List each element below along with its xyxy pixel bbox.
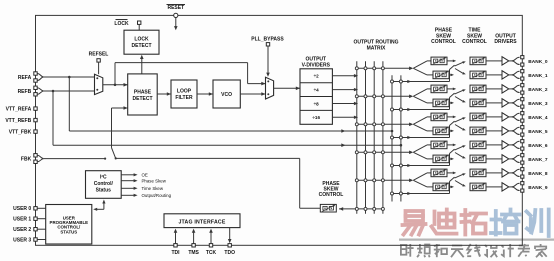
wire divider outputs to matrix [332,75,355,77]
wire time skew to driver [486,116,502,118]
matrix feedback tap line [339,208,383,210]
svg-text:TCK: TCK [206,250,217,256]
output driver buffer [502,57,509,65]
block phase skew bank 9 [433,183,449,191]
output driver buffer [502,85,509,93]
TDO pin [228,244,231,247]
svg-text:BANK_5: BANK_5 [528,129,548,135]
svg-text:BANK_2: BANK_2 [528,87,548,93]
svg-text:REFB: REFB [18,89,32,95]
wire time skew to driver [486,186,502,188]
wire loop filter to VCO [197,93,213,95]
wire phase skew feedback to phase detect [300,207,321,209]
VTT_FBK pin [34,130,37,133]
block phase skew bank 8 [431,169,447,177]
svg-text:REFSEL: REFSEL [89,51,109,57]
wire phase to time crossover pair 3 [447,144,453,146]
svg-text:VTT_FBK: VTT_FBK [9,130,32,136]
BANK_5 output pins [521,126,524,129]
block time skew bank 4 [470,113,486,121]
fork to bank 2 and 3 phase skew [413,89,427,96]
wire driver to pins [509,102,512,104]
svg-text:VTT_REFB: VTT_REFB [5,118,31,124]
svg-text:CONTROL: CONTROL [462,39,487,45]
output driver buffer [502,155,509,163]
wire PLL_BYPASS to mux [267,46,269,74]
wire driver to pins [509,60,512,62]
wire USER 3 to block [37,239,46,241]
block I2C control/status U7 [86,171,122,199]
block phase skew bank 2 [431,85,447,93]
wire TDI [175,231,177,244]
block phase skew bank 6 [431,141,447,149]
svg-text:OE: OE [142,172,148,177]
svg-text:VCO: VCO [221,92,232,98]
wire driver to pins [509,144,512,146]
wire time skew to driver [486,74,502,76]
svg-text:BANK_8: BANK_8 [528,171,548,177]
wire driver to pins [509,172,512,174]
PLL_BYPASS pin [266,43,269,46]
svg-text:MATRIX: MATRIX [367,46,386,52]
wire TDO [229,228,231,241]
svg-text:USER 0: USER 0 [13,206,31,212]
wire bypass mux to dividers [274,87,300,89]
matrix row lines to output pairs [357,67,410,69]
BANK_2 output pins [521,84,524,87]
node PLL bypass tap [114,84,117,87]
watermark small text 射频和天线设计专家 [401,244,414,257]
block time skew bank 0 [470,57,486,65]
svg-text:REFA: REFA [18,75,32,81]
wire TCK [210,231,212,244]
node REFB tap [52,90,55,93]
block phase skew bank 5 [433,127,449,135]
svg-text:CONTROL: CONTROL [319,192,344,198]
REFA input fork [37,74,44,81]
svg-text:DRIVERS: DRIVERS [494,39,517,45]
block phase skew bank 1 [433,71,449,79]
wire driver to pins [509,88,512,90]
wire time skew to driver [486,144,502,146]
block phase skew bank 7 [433,155,449,163]
BANK_1 output pins [521,70,524,73]
wire LOCK pin to lock detect [138,24,140,30]
block time skew bank 3 [470,99,486,107]
TCK pin [209,244,212,247]
matrix columns reference bypass [391,75,393,201]
svg-text:LOOP: LOOP [177,88,192,94]
svg-text:CONTROL: CONTROL [431,39,456,45]
svg-text:BANK_4: BANK_4 [528,115,548,121]
block output V-dividers [300,69,332,125]
block user programmable control/status U8 [46,205,92,245]
REFA input pins [34,72,37,75]
output driver buffer [502,71,509,79]
svg-text:BANK_9: BANK_9 [528,185,548,191]
fork to bank 4 and 5 phase skew [413,117,427,124]
svg-text:DETECT: DETECT [132,43,152,49]
block time skew bank 9 [470,183,486,191]
output driver buffer [502,141,509,149]
BANK_8 output pins [521,168,524,171]
wire time skew to driver [486,130,502,132]
svg-text:BANK_6: BANK_6 [528,143,548,149]
svg-text:Status: Status [96,188,112,194]
wire phase to time crossover pair 2 [447,116,453,118]
svg-text:USER 1: USER 1 [13,217,31,223]
wire user block to I2C [103,202,105,210]
block PHASE DETECT U3 [128,74,158,115]
svg-text:RESET: RESET [167,5,184,11]
wire secondary riser [449,154,451,166]
svg-text:BANK_0: BANK_0 [528,59,548,65]
node REFA tap [68,76,71,79]
node REFA to matrix column [391,130,394,133]
wire phase to time crossover pair 0 [447,60,453,62]
wire driver to pins [509,158,512,160]
wire time skew to driver [486,158,502,160]
svg-text:÷4: ÷4 [314,88,320,93]
svg-text:I²C: I²C [100,175,107,181]
wire phase to time crossover pair 4 [447,172,453,174]
block time skew bank 8 [470,169,486,177]
wire secondary riser [449,98,451,110]
block JTAG INTERFACE U9 [164,214,240,228]
fork to bank 6 and 7 phase skew [413,145,427,152]
output driver buffer [502,169,509,177]
svg-text:÷2: ÷2 [314,74,320,79]
VTT_REFB pin [34,118,37,121]
svg-text:VTT_REFA: VTT_REFA [6,107,32,113]
mux reference select [95,74,103,94]
wire USER 2 to block [37,228,46,230]
svg-text:BANK_3: BANK_3 [528,101,548,107]
wire driver to pins [509,116,512,118]
BANK_0 output pins [521,56,524,59]
watermark big text 易迪拓培训 [403,211,426,235]
fork to bank 8 and 9 phase skew [413,173,427,180]
wire phase detect to lock detect [141,58,143,74]
REFB input fork [37,88,44,95]
svg-text:BANK_7: BANK_7 [528,157,548,163]
wire driver to pins [509,130,512,132]
wire USER 1 to block [37,218,46,220]
chip boundary [36,15,523,245]
block time skew bank 7 [470,155,486,163]
svg-text:USER 3: USER 3 [13,237,31,243]
output driver buffer [502,99,509,107]
wire TMS [193,231,195,244]
VTT_REFA pin [34,107,37,110]
svg-text:Output/Routing: Output/Routing [142,193,172,198]
svg-text:TDO: TDO [224,250,235,256]
svg-text:TMS: TMS [188,250,199,256]
wire REFA to mux [44,76,95,78]
block VCO U5 [213,80,240,108]
wire phase to time crossover pair 1 [447,88,453,90]
svg-text:USER 2: USER 2 [13,227,31,233]
wire mux to phase detect [103,84,128,86]
block time skew bank 6 [470,141,486,149]
wire time skew to driver [486,60,502,62]
feedback select switch [112,148,116,159]
block time skew bank 1 [470,71,486,79]
svg-text:÷8: ÷8 [314,101,320,106]
svg-text:FILTER: FILTER [175,95,193,101]
svg-text:BANK_1: BANK_1 [528,73,548,79]
block time skew bank 5 [470,127,486,135]
output driver buffer [502,113,509,121]
wire REFA direct route [68,77,70,131]
block LOCK DETECT U2 [124,30,159,54]
node REFB to matrix column [400,144,403,147]
svg-text:÷16: ÷16 [312,115,320,120]
TMS pin [192,244,195,247]
wire feedback into phase detect [111,108,113,148]
output driver buffer [502,127,509,135]
svg-text:Control/: Control/ [94,181,114,187]
REFB input pins [34,86,37,89]
block time skew bank 2 [470,85,486,93]
block phase skew control (feedback) U6 [320,204,336,212]
output driver buffer [502,183,509,191]
fork to bank 0 and 1 phase skew [413,61,427,68]
svg-text:V-DIVIDERS: V-DIVIDERS [302,63,331,69]
wire secondary riser [449,182,451,194]
svg-text:Time Skew: Time Skew [142,186,164,191]
REFSEL pin [97,59,100,62]
block LOOP FILTER U4 [171,80,197,108]
mux PLL bypass [266,77,274,99]
I2C output arrows [121,174,134,176]
wire VCO to bypass mux [240,93,265,95]
svg-text:LOCK: LOCK [134,37,149,43]
block phase skew bank 4 [431,113,447,121]
wire bypass route to PLL bypass mux [114,63,116,85]
wire phase detect to loop filter [157,93,171,95]
matrix columns PLL clocks [356,61,358,214]
wire REFB direct route [52,91,54,145]
svg-text:STATUS: STATUS [60,229,77,234]
svg-text:PLL_BYPASS: PLL_BYPASS [251,37,284,43]
svg-text:Phase Skew: Phase Skew [142,178,167,183]
block phase skew bank 0 [431,57,447,65]
wire FBK stub [44,158,105,160]
USER pins [34,207,37,210]
block phase skew bank 3 [433,99,449,107]
FBK input pins [34,154,37,157]
RESET pin [174,13,178,17]
wire USER 0 to block [37,207,46,209]
wire driver to pins [509,186,512,188]
wire secondary riser [449,126,451,138]
LOCK pin [138,21,141,24]
wire time skew to driver [486,172,502,174]
svg-text:LOCK: LOCK [114,21,129,27]
wire time skew to driver [486,102,502,104]
svg-text:FBK: FBK [21,156,32,162]
wire driver to pins [509,74,512,76]
svg-text:JTAG INTERFACE: JTAG INTERFACE [178,219,225,225]
svg-text:PHASE: PHASE [134,89,152,95]
wire time skew to driver [486,88,502,90]
BANK_9 output pins [521,182,524,185]
BANK_4 output pins [521,112,524,115]
BANK_3 output pins [521,98,524,101]
svg-text:TDI: TDI [171,250,180,256]
TDI pin [174,244,177,247]
BANK_7 output pins [521,154,524,157]
matrix secondary row lines [392,81,450,83]
svg-text:DETECT: DETECT [133,96,153,102]
wire secondary riser [449,70,451,82]
wire REFSEL to mux [98,62,100,74]
BANK_6 output pins [521,140,524,143]
watermark underline [399,239,554,241]
wire REFB to mux [44,90,95,92]
FBK input fork [37,155,44,162]
